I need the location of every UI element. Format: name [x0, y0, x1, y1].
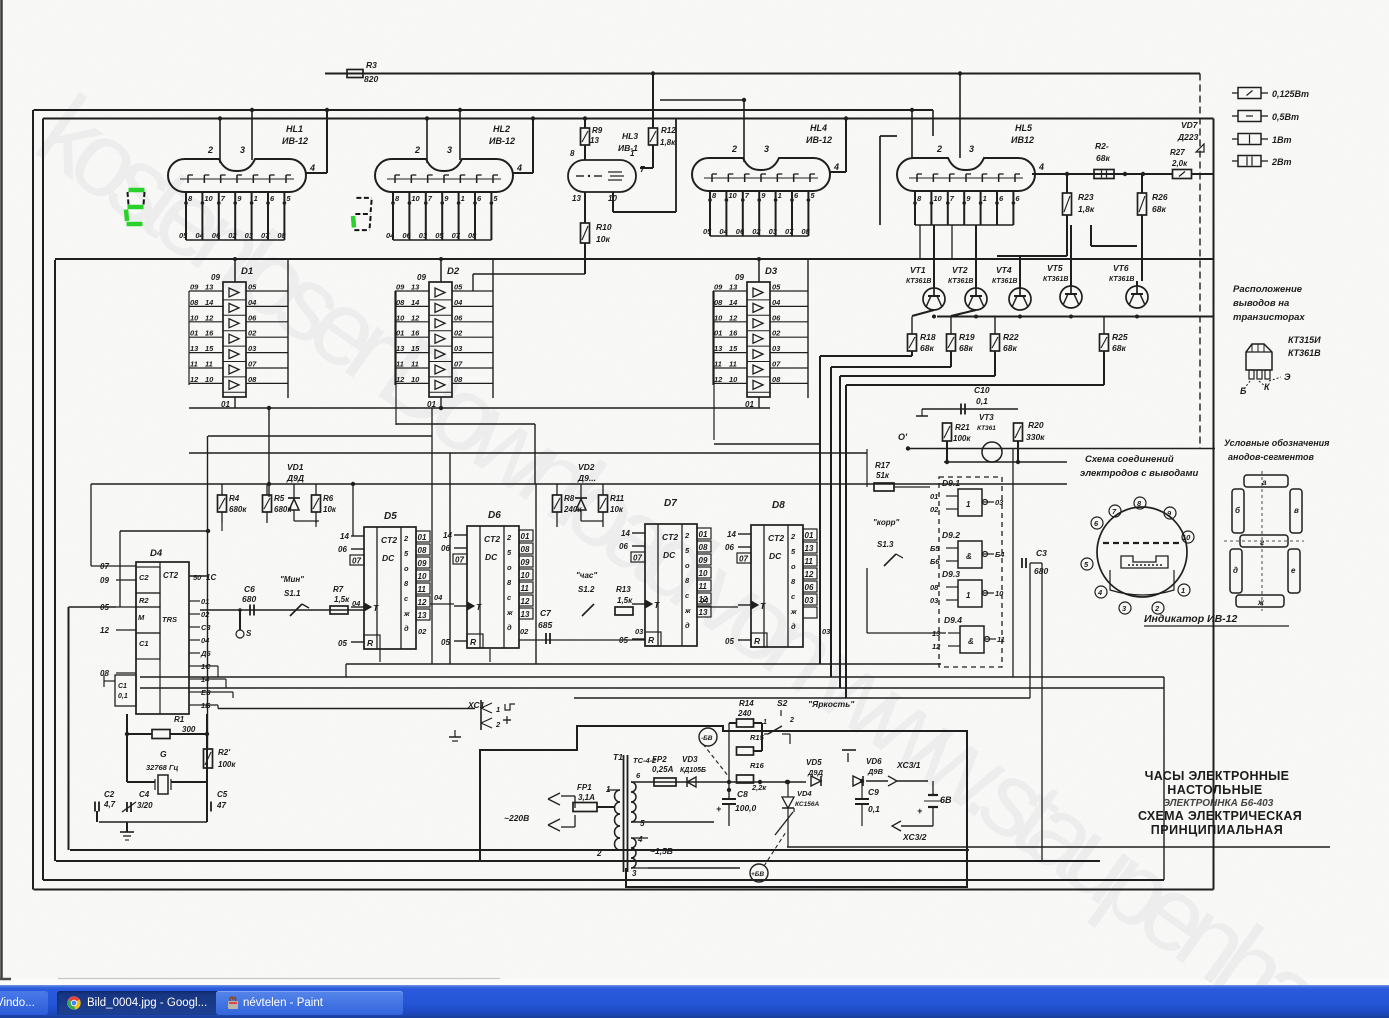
svg-text:ж: ж: [684, 606, 691, 615]
svg-text:R9: R9: [592, 126, 603, 135]
svg-text:S2: S2: [777, 698, 788, 708]
svg-text:"час": "час": [576, 571, 597, 580]
svg-text:10: 10: [995, 589, 1004, 598]
svg-text:07: 07: [739, 555, 748, 564]
svg-text:0,125Вт: 0,125Вт: [1272, 89, 1309, 99]
svg-text:02: 02: [201, 610, 210, 619]
svg-text:TRS: TRS: [162, 615, 177, 624]
svg-text:3: 3: [447, 145, 452, 155]
svg-text:C10: C10: [974, 385, 990, 395]
svg-text:VT4: VT4: [996, 265, 1012, 275]
svg-text:Т1: Т1: [613, 752, 623, 762]
svg-text:08: 08: [418, 546, 427, 555]
svg-text:е: е: [1291, 566, 1296, 575]
svg-text:VD1: VD1: [287, 462, 304, 472]
svg-text:R20: R20: [1028, 420, 1044, 430]
svg-text:12: 12: [729, 313, 738, 322]
svg-text:100к: 100к: [218, 760, 236, 769]
svg-text:09: 09: [735, 273, 744, 282]
svg-text:4: 4: [637, 835, 643, 844]
svg-text:2: 2: [790, 532, 796, 541]
svg-text:2: 2: [731, 144, 737, 154]
svg-text:VD5: VD5: [806, 758, 822, 767]
svg-text:01: 01: [190, 329, 198, 338]
svg-text:08: 08: [190, 298, 199, 307]
svg-text:06: 06: [805, 583, 814, 592]
svg-text:КТ361В: КТ361В: [948, 278, 973, 285]
svg-text:06: 06: [619, 542, 628, 551]
svg-text:03: 03: [822, 627, 831, 636]
svg-text:11: 11: [699, 582, 708, 591]
svg-text:VD4: VD4: [797, 789, 812, 798]
svg-text:04: 04: [195, 231, 204, 240]
svg-text:R2: R2: [139, 596, 149, 605]
svg-text:14: 14: [205, 298, 214, 307]
svg-text:КТ361: КТ361: [977, 425, 996, 432]
svg-text:1: 1: [1181, 586, 1185, 595]
svg-text:R18: R18: [920, 332, 936, 342]
svg-text:D9.1: D9.1: [942, 478, 960, 488]
svg-text:D2: D2: [447, 266, 460, 277]
svg-text:4: 4: [1038, 162, 1044, 172]
svg-text:08: 08: [772, 375, 781, 384]
svg-text:0,5Вт: 0,5Вт: [1272, 112, 1299, 122]
svg-text:R: R: [648, 635, 655, 645]
svg-text:2,0к: 2,0к: [1171, 159, 1188, 168]
svg-text:R6: R6: [323, 494, 334, 503]
svg-text:1: 1: [630, 149, 635, 158]
svg-text:680: 680: [1034, 566, 1048, 576]
svg-text:R5: R5: [274, 494, 285, 503]
svg-text:C2: C2: [139, 573, 149, 582]
svg-text:Д9В: Д9В: [867, 767, 884, 776]
svg-text:05: 05: [441, 638, 450, 647]
svg-text:FP2: FP2: [652, 755, 667, 764]
svg-text:ПРИНЦИПИАЛЬНАЯ: ПРИНЦИПИАЛЬНАЯ: [1151, 823, 1283, 837]
svg-text:КД105Б: КД105Б: [680, 767, 706, 774]
svg-text:02: 02: [772, 329, 781, 338]
svg-text:4,7: 4,7: [103, 800, 116, 809]
svg-text:1,5к: 1,5к: [334, 595, 350, 604]
svg-text:10: 10: [714, 313, 723, 322]
svg-text:10: 10: [1182, 533, 1191, 542]
svg-text:R8: R8: [564, 494, 575, 503]
svg-text:Э: Э: [1284, 372, 1291, 382]
svg-text:VD3: VD3: [682, 755, 698, 764]
svg-text:12: 12: [932, 642, 941, 651]
svg-text:09: 09: [418, 559, 427, 568]
svg-text:VT5: VT5: [1047, 263, 1063, 273]
svg-text:VT6: VT6: [1113, 263, 1129, 273]
svg-text:Б6: Б6: [930, 557, 940, 566]
svg-text:2: 2: [789, 717, 794, 724]
svg-text:Б5: Б5: [930, 544, 940, 553]
svg-text:M: M: [138, 613, 145, 622]
svg-text:01: 01: [699, 530, 708, 539]
svg-text:Индикатор ИВ-12: Индикатор ИВ-12: [1144, 613, 1238, 625]
svg-text:DC: DC: [663, 550, 676, 560]
svg-text:15: 15: [729, 344, 738, 353]
svg-text:Схема соединений: Схема соединений: [1085, 454, 1174, 465]
svg-text:01: 01: [714, 329, 722, 338]
svg-text:ж: ж: [403, 609, 410, 618]
svg-text:12: 12: [396, 375, 405, 384]
svg-text:10: 10: [411, 194, 420, 203]
svg-text:03: 03: [248, 344, 257, 353]
svg-text:2: 2: [936, 144, 942, 154]
svg-text:10: 10: [204, 194, 213, 203]
svg-text:13: 13: [396, 344, 405, 353]
svg-text:выводов на: выводов на: [1233, 298, 1289, 309]
svg-text:10: 10: [418, 572, 427, 581]
svg-text:07: 07: [352, 557, 361, 566]
svg-text:2: 2: [207, 145, 213, 155]
svg-text:04: 04: [700, 596, 709, 605]
svg-text:VD6: VD6: [866, 757, 882, 766]
svg-text:Б: Б: [1240, 386, 1247, 396]
svg-text:CT2: CT2: [381, 535, 397, 545]
svg-text:10: 10: [933, 194, 942, 203]
svg-text:S1.2: S1.2: [578, 585, 595, 594]
svg-text:3: 3: [240, 145, 245, 155]
svg-text:12: 12: [418, 598, 427, 607]
svg-text:2: 2: [414, 145, 420, 155]
svg-text:R19: R19: [959, 332, 975, 342]
svg-text:DC: DC: [769, 551, 782, 561]
svg-text:50: 50: [193, 573, 202, 582]
svg-text:08: 08: [930, 583, 939, 592]
svg-text:T: T: [654, 600, 660, 610]
svg-text:68к: 68к: [920, 343, 934, 353]
svg-text:01: 01: [930, 492, 938, 501]
svg-text:12: 12: [190, 375, 199, 384]
svg-text:12: 12: [411, 313, 420, 322]
svg-text:HL1: HL1: [286, 124, 303, 134]
svg-text:05: 05: [179, 231, 188, 240]
svg-text:VD2: VD2: [578, 462, 595, 472]
svg-text:ИВ-12: ИВ-12: [806, 135, 832, 145]
svg-text:3: 3: [969, 144, 974, 154]
svg-text:КТ361В: КТ361В: [992, 278, 1017, 285]
svg-text:01: 01: [201, 597, 209, 606]
svg-text:14: 14: [411, 298, 420, 307]
svg-text:Д9...: Д9...: [577, 473, 596, 483]
svg-text:КТ361В: КТ361В: [1043, 276, 1068, 283]
svg-text:д: д: [1233, 566, 1238, 575]
svg-text:04: 04: [201, 636, 210, 645]
svg-text:06: 06: [772, 313, 781, 322]
svg-text:15: 15: [411, 344, 420, 353]
svg-text:д: д: [404, 624, 409, 633]
svg-text:"корр": "корр": [873, 518, 900, 527]
svg-text:08: 08: [100, 669, 109, 678]
svg-text:1,8к: 1,8к: [1078, 204, 1095, 214]
svg-text:0,25А: 0,25А: [652, 765, 674, 774]
svg-text:R: R: [754, 636, 761, 646]
svg-text:д: д: [507, 623, 512, 632]
svg-text:HL4: HL4: [810, 123, 827, 133]
svg-text:C1: C1: [139, 639, 149, 648]
svg-text:1: 1: [461, 194, 465, 203]
svg-text:C3: C3: [1036, 548, 1047, 558]
svg-text:8: 8: [570, 149, 575, 158]
svg-text:R12: R12: [661, 126, 676, 135]
svg-text:0,1: 0,1: [118, 693, 128, 700]
svg-text:13: 13: [714, 344, 723, 353]
svg-text:д: д: [685, 621, 690, 630]
svg-text:06: 06: [454, 313, 463, 322]
svg-text:04: 04: [434, 593, 443, 602]
svg-text:240: 240: [737, 709, 752, 718]
svg-text:32768 Гц: 32768 Гц: [146, 763, 179, 772]
svg-text:ж: ж: [790, 607, 797, 616]
svg-text:VD7: VD7: [1181, 120, 1199, 130]
svg-text:1: 1: [966, 500, 971, 509]
svg-text:02: 02: [228, 231, 237, 240]
svg-text:06: 06: [736, 227, 745, 236]
svg-text:100к: 100к: [953, 434, 971, 443]
svg-text:01: 01: [521, 532, 530, 541]
svg-text:10: 10: [521, 571, 530, 580]
svg-text:10: 10: [190, 313, 199, 322]
svg-text:14: 14: [340, 532, 349, 541]
svg-text:DC: DC: [485, 552, 498, 562]
svg-text:06: 06: [441, 544, 450, 553]
svg-text:2,2к: 2,2к: [751, 783, 767, 792]
svg-text:КС156А: КС156А: [795, 801, 819, 808]
svg-text:01: 01: [418, 533, 427, 542]
svg-text:08: 08: [454, 375, 463, 384]
svg-text:3: 3: [632, 869, 637, 878]
svg-text:ХС3/2: ХС3/2: [902, 832, 927, 842]
svg-text:~1,5В: ~1,5В: [650, 846, 673, 856]
svg-text:14: 14: [727, 530, 736, 539]
svg-text:электродов с выводами: электродов с выводами: [1080, 468, 1198, 479]
svg-text:01: 01: [396, 329, 404, 338]
svg-text:08: 08: [699, 543, 708, 552]
svg-text:о: о: [685, 561, 690, 570]
svg-text:транзисторах: транзисторах: [1233, 312, 1305, 323]
svg-text:C6: C6: [244, 584, 255, 594]
svg-text:S1.3: S1.3: [877, 540, 894, 549]
svg-text:07: 07: [248, 360, 257, 369]
svg-text:НАСТОЛЬНЫЕ: НАСТОЛЬНЫЕ: [1167, 783, 1263, 797]
svg-text:13: 13: [411, 283, 420, 292]
svg-text:07: 07: [785, 227, 794, 236]
svg-text:10: 10: [411, 375, 420, 384]
svg-text:ЧАСЫ ЭЛЕКТРОННЫЕ: ЧАСЫ ЭЛЕКТРОННЫЕ: [1145, 769, 1290, 783]
svg-text:T: T: [476, 602, 482, 612]
svg-text:05: 05: [725, 637, 734, 646]
svg-text:г: г: [1260, 538, 1265, 547]
svg-text:4: 4: [833, 162, 839, 172]
svg-text:D7: D7: [664, 498, 677, 509]
svg-text:0,1: 0,1: [868, 804, 880, 814]
svg-text:68к: 68к: [1152, 204, 1166, 214]
svg-text:Д9Д: Д9Д: [807, 768, 824, 777]
svg-text:2: 2: [684, 531, 690, 540]
svg-text:"Яркость": "Яркость": [808, 699, 855, 709]
svg-text:07: 07: [452, 231, 461, 240]
svg-text:02: 02: [752, 227, 761, 236]
svg-text:1C: 1C: [206, 573, 216, 582]
svg-text:1: 1: [966, 591, 971, 600]
svg-text:R21: R21: [955, 423, 970, 432]
svg-text:1: 1: [983, 194, 987, 203]
svg-text:1: 1: [763, 719, 767, 726]
svg-text:D9.4: D9.4: [944, 615, 962, 625]
svg-text:С8: С8: [737, 789, 748, 799]
svg-text:05: 05: [454, 283, 463, 292]
svg-text:02: 02: [418, 627, 427, 636]
svg-text:"Мин": "Мин": [280, 575, 304, 584]
svg-text:100,0: 100,0: [735, 803, 757, 813]
svg-text:+: +: [917, 806, 923, 816]
svg-text:2: 2: [596, 849, 602, 858]
svg-text:R17: R17: [875, 461, 890, 470]
svg-text:03: 03: [419, 231, 428, 240]
svg-text:D1: D1: [241, 266, 253, 277]
svg-text:6В: 6В: [940, 795, 952, 805]
svg-text:47: 47: [216, 801, 226, 810]
svg-text:КТ361В: КТ361В: [906, 278, 931, 285]
svg-text:16: 16: [205, 329, 214, 338]
svg-text:2: 2: [403, 534, 409, 543]
svg-text:HL3: HL3: [622, 131, 638, 141]
svg-text:09: 09: [714, 283, 723, 292]
svg-text:68к: 68к: [1096, 153, 1110, 163]
svg-text:КТ361В: КТ361В: [1288, 348, 1321, 358]
svg-text:G: G: [160, 749, 167, 759]
svg-text:04: 04: [248, 298, 257, 307]
svg-text:DC: DC: [382, 553, 395, 563]
svg-text:R11: R11: [610, 494, 625, 503]
svg-text:02: 02: [930, 505, 939, 514]
svg-text:13: 13: [699, 608, 708, 617]
svg-text:D3: D3: [765, 266, 778, 277]
svg-text:14: 14: [729, 298, 738, 307]
svg-text:09: 09: [190, 283, 199, 292]
svg-text:КТ361В: КТ361В: [1109, 276, 1134, 283]
svg-text:12: 12: [521, 597, 530, 606]
svg-text:01: 01: [805, 531, 814, 540]
svg-text:3/20: 3/20: [137, 801, 153, 810]
svg-text:D9.3: D9.3: [942, 569, 960, 579]
svg-text:11: 11: [190, 360, 198, 369]
svg-text:о: о: [404, 564, 409, 573]
svg-text:05: 05: [338, 639, 347, 648]
svg-text:R26: R26: [1152, 192, 1168, 202]
svg-text:08: 08: [801, 227, 810, 236]
svg-text:VT3: VT3: [979, 413, 994, 422]
svg-text:R4: R4: [229, 494, 240, 503]
svg-text:ИВ12: ИВ12: [1011, 135, 1034, 145]
svg-text:05: 05: [772, 283, 781, 292]
svg-text:09: 09: [211, 273, 220, 282]
svg-text:R: R: [470, 637, 477, 647]
svg-text:&: &: [968, 637, 974, 646]
svg-text:680: 680: [242, 594, 256, 604]
svg-text:08: 08: [277, 231, 286, 240]
svg-text:Б4: Б4: [995, 550, 1005, 559]
svg-text:13: 13: [729, 283, 738, 292]
svg-text:Д6: Д6: [200, 649, 211, 658]
svg-text:С9: С9: [868, 787, 879, 797]
svg-text:CT2: CT2: [484, 534, 500, 544]
svg-text:2: 2: [506, 533, 512, 542]
svg-text:R10: R10: [596, 222, 612, 232]
svg-text:CT2: CT2: [662, 532, 678, 542]
svg-text:в: в: [1294, 506, 1299, 515]
svg-text:VT1: VT1: [910, 265, 926, 275]
svg-text:HL5: HL5: [1015, 123, 1033, 133]
svg-text:&: &: [966, 552, 972, 561]
svg-text:10к: 10к: [610, 505, 624, 514]
svg-text:R2': R2': [218, 748, 231, 757]
svg-text:12: 12: [714, 375, 723, 384]
svg-text:S: S: [246, 629, 252, 638]
svg-text:CT2: CT2: [163, 571, 179, 580]
svg-text:R16: R16: [750, 761, 765, 770]
svg-text:16: 16: [729, 329, 738, 338]
svg-text:68к: 68к: [1003, 343, 1017, 353]
svg-text:Д223: Д223: [1177, 132, 1199, 142]
svg-text:C1: C1: [118, 683, 127, 690]
svg-text:1: 1: [254, 194, 258, 203]
svg-text:03: 03: [769, 227, 778, 236]
svg-text:300: 300: [182, 725, 196, 734]
svg-text:4: 4: [516, 163, 522, 173]
svg-text:10: 10: [729, 375, 738, 384]
svg-text:а: а: [1262, 478, 1267, 487]
svg-text:о: о: [507, 563, 512, 572]
svg-text:13: 13: [521, 610, 530, 619]
svg-text:ИВ-1: ИВ-1: [618, 143, 638, 153]
svg-text:02: 02: [520, 627, 529, 636]
svg-text:09: 09: [100, 576, 109, 585]
svg-text:д: д: [791, 622, 796, 631]
svg-text:03: 03: [454, 344, 463, 353]
svg-text:06: 06: [212, 231, 221, 240]
svg-text:06: 06: [338, 545, 347, 554]
svg-text:08: 08: [714, 298, 723, 307]
svg-text:R: R: [367, 638, 374, 648]
svg-text:3,1А: 3,1А: [578, 793, 595, 802]
svg-text:10: 10: [205, 375, 214, 384]
svg-text:анодов-сегментов: анодов-сегментов: [1228, 452, 1315, 462]
svg-text:13: 13: [572, 194, 581, 203]
svg-text:13: 13: [205, 283, 214, 292]
svg-text:06: 06: [248, 313, 257, 322]
svg-text:ИВ-12: ИВ-12: [282, 136, 308, 146]
svg-text:C2: C2: [104, 790, 115, 799]
svg-text:07: 07: [633, 554, 642, 563]
svg-text:-БВ: -БВ: [701, 735, 713, 742]
svg-text:13: 13: [805, 544, 814, 553]
svg-text:10: 10: [699, 569, 708, 578]
svg-text:T: T: [760, 601, 766, 611]
svg-text:2: 2: [1154, 604, 1160, 613]
svg-text:680к: 680к: [229, 505, 247, 514]
svg-text:02: 02: [248, 329, 257, 338]
svg-text:C4: C4: [139, 790, 150, 799]
svg-text:ИВ-12: ИВ-12: [489, 136, 515, 146]
svg-text:R7: R7: [333, 585, 344, 594]
svg-text:Д9Д: Д9Д: [286, 473, 304, 483]
svg-text:D9.2: D9.2: [942, 530, 960, 540]
svg-text:08: 08: [521, 545, 530, 554]
svg-text:07: 07: [261, 231, 270, 240]
